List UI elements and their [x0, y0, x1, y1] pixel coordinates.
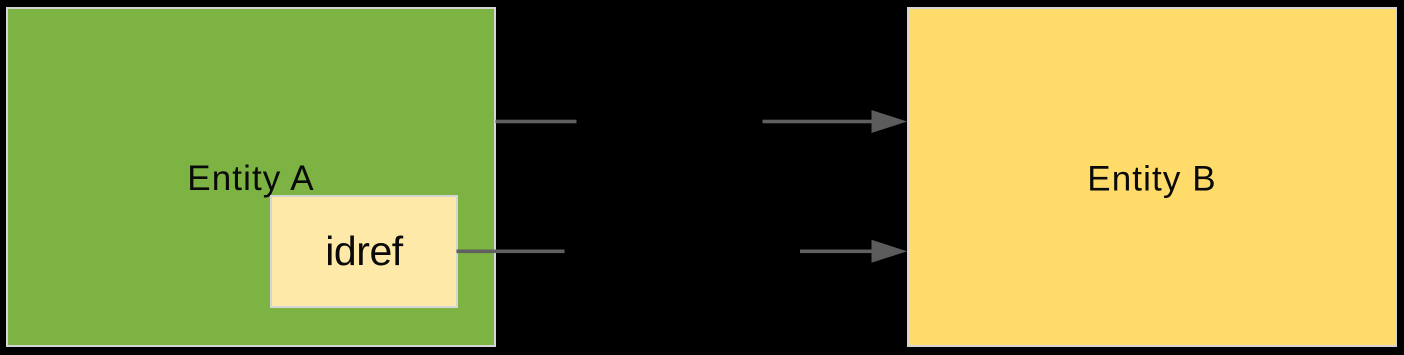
svg-text:Entity B: Entity B — [1087, 160, 1216, 199]
idref box — [271, 196, 457, 307]
wire arrow2 head segment — [800, 250, 872, 254]
wire arrow2 tail segment — [457, 250, 565, 254]
svg-text:Entity A: Entity A — [187, 159, 314, 198]
arrow1 head — [872, 110, 908, 133]
entity B box — [908, 8, 1396, 346]
svg-text:idref: idref — [325, 228, 404, 274]
entity A box — [7, 8, 495, 346]
arrow2 head — [872, 240, 908, 263]
wire arrow1 tail segment — [496, 120, 577, 124]
wire arrow1 head segment — [763, 120, 873, 124]
